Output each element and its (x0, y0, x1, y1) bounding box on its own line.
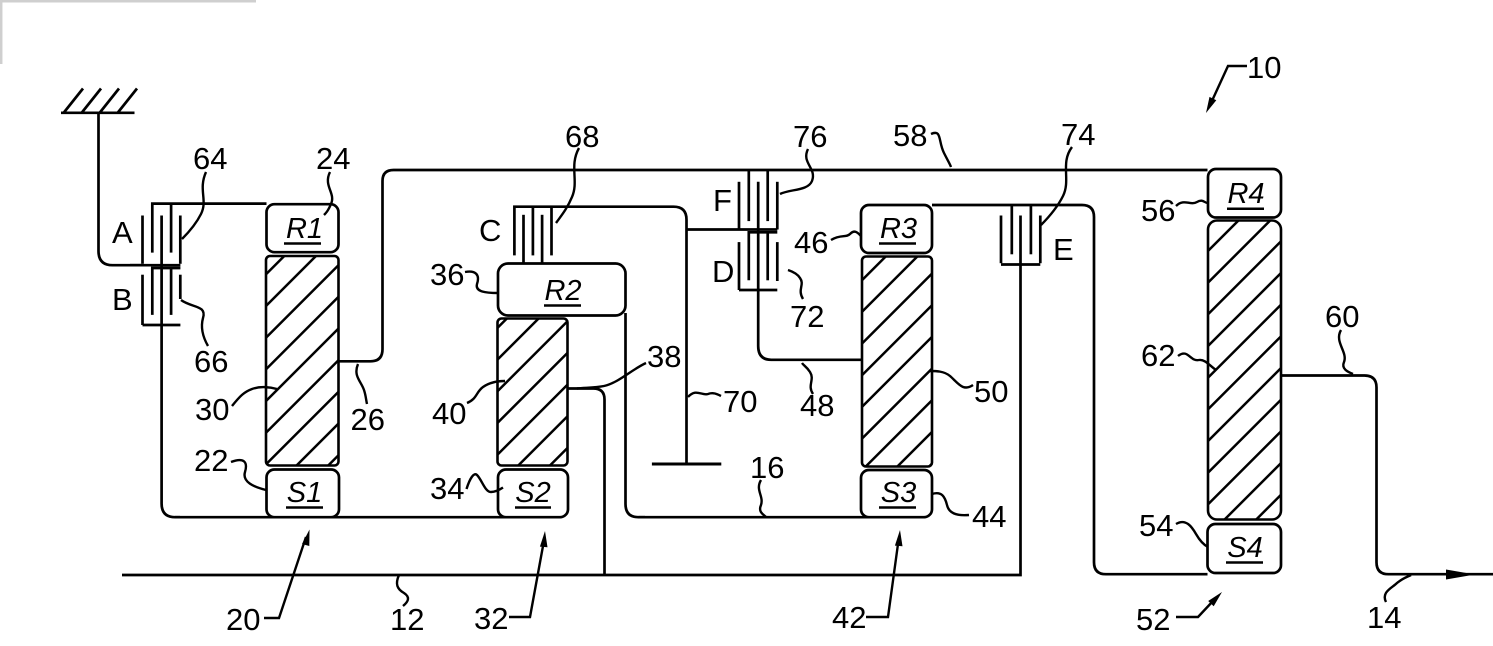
svg-text:44: 44 (972, 499, 1006, 534)
label 42 with arrow (832, 530, 903, 635)
label 56 leader (1141, 193, 1207, 228)
svg-text:46: 46 (794, 225, 828, 260)
svg-text:48: 48 (800, 388, 834, 423)
svg-text:52: 52 (1136, 602, 1170, 637)
label 24 leader (316, 141, 350, 215)
svg-text:R1: R1 (286, 213, 323, 245)
top interconnect line 58 (383, 170, 1208, 181)
wire 38: R2 body to input shaft (568, 389, 605, 576)
svg-text:S2: S2 (515, 477, 550, 509)
sun gear S3 box (861, 470, 932, 517)
label 38 leader (577, 339, 681, 389)
label 62 leader (1141, 338, 1216, 373)
svg-text:56: 56 (1141, 193, 1175, 228)
label 20 with arrow (226, 530, 310, 638)
wire 74: R3 ring / E to S4 (932, 205, 1208, 574)
page border artifact top-left (0, 0, 256, 64)
wire 60: R4 body to output (1281, 376, 1493, 575)
wire 48: F/D stem down to R3 body (758, 182, 862, 360)
label 64 leader (182, 141, 227, 239)
label 34 leader (430, 471, 503, 506)
sun line S1-S2 (175, 516, 561, 519)
clutch E (1001, 205, 1040, 265)
svg-text:58: 58 (893, 118, 927, 153)
label 66 leader (181, 300, 228, 379)
clutch A (130, 204, 267, 266)
label 74 leader (1041, 117, 1095, 225)
ring gear R1 box (267, 204, 339, 252)
clutch B (143, 268, 181, 325)
svg-text:40: 40 (432, 396, 466, 431)
output arrowhead 14 (1446, 570, 1475, 580)
wire 26: R1 body to top line (339, 181, 383, 361)
svg-text:R2: R2 (544, 275, 581, 307)
svg-text:34: 34 (430, 471, 464, 506)
svg-text:10: 10 (1247, 50, 1281, 85)
label 68 leader (556, 119, 599, 223)
svg-text:20: 20 (226, 602, 260, 637)
label 76 leader (780, 119, 827, 194)
svg-text:B: B (112, 282, 133, 317)
sun gear S2 box (498, 470, 568, 518)
svg-text:R4: R4 (1227, 178, 1264, 210)
svg-text:12: 12 (390, 602, 424, 637)
svg-text:C: C (479, 213, 501, 248)
wire B cup stem down to sun line (162, 216, 180, 518)
label 30 leader (195, 387, 277, 427)
label 36 leader (430, 257, 498, 293)
planetary gearset 3 hatched body (50) (862, 257, 932, 467)
label 14 leader (1367, 575, 1411, 635)
svg-text:66: 66 (194, 344, 228, 379)
ground bar 70 (652, 463, 721, 466)
label 58 leader (893, 118, 951, 167)
label 10 with arrow (1206, 50, 1281, 113)
svg-text:62: 62 (1141, 338, 1175, 373)
svg-text:A: A (112, 215, 133, 250)
label 16 leader (750, 450, 784, 517)
svg-text:38: 38 (647, 339, 681, 374)
label 54 leader (1139, 508, 1208, 547)
wire C cup to grounded node 70 (660, 207, 687, 464)
svg-text:72: 72 (790, 299, 824, 334)
clutch F (739, 170, 777, 230)
svg-text:22: 22 (194, 443, 228, 478)
sun gear S1 box (267, 470, 340, 518)
label 46 leader (794, 225, 861, 260)
svg-text:S1: S1 (287, 477, 322, 509)
ground symbol (fixed case, top left) (61, 89, 137, 114)
input shaft 12 and clutch E stem (122, 216, 1021, 576)
ring gear R2 box (498, 264, 626, 316)
svg-text:50: 50 (974, 374, 1008, 409)
svg-text:70: 70 (723, 384, 757, 419)
svg-text:74: 74 (1061, 117, 1095, 152)
label 72 leader (788, 270, 824, 334)
svg-text:68: 68 (565, 119, 599, 154)
svg-text:76: 76 (793, 119, 827, 154)
svg-text:F: F (713, 183, 732, 218)
clutch D (739, 232, 777, 290)
svg-text:42: 42 (832, 600, 866, 635)
label 40 leader (432, 381, 505, 431)
svg-text:26: 26 (351, 402, 385, 437)
label 60 leader (1325, 299, 1359, 374)
svg-text:14: 14 (1367, 600, 1401, 635)
svg-text:R3: R3 (880, 213, 917, 245)
ring gear R3 box (861, 205, 932, 253)
wire R2 riser down to sun line (626, 313, 646, 517)
label 12 leader (390, 575, 424, 637)
svg-text:16: 16 (750, 450, 784, 485)
wire ground to clutch A cup (99, 113, 143, 265)
label 52 with arrow (1136, 592, 1222, 637)
wire node 70 to clutch F cup (687, 228, 778, 231)
label 50 leader (930, 371, 1008, 409)
svg-text:54: 54 (1139, 508, 1173, 543)
clutch C (514, 207, 660, 266)
svg-text:32: 32 (474, 601, 508, 636)
svg-text:60: 60 (1325, 299, 1359, 334)
label 22 leader (194, 443, 266, 490)
sun line to S3 (16) (639, 516, 926, 519)
svg-text:S3: S3 (881, 477, 916, 509)
svg-text:36: 36 (430, 257, 464, 292)
svg-text:64: 64 (193, 141, 227, 176)
label 44 leader (932, 493, 1006, 534)
ring gear R4 box (1208, 169, 1281, 218)
svg-text:24: 24 (316, 141, 350, 176)
planetary gearset 1 hatched body (30) (266, 256, 339, 466)
label 32 with arrow (474, 531, 548, 636)
planetary gearset 4 hatched body (62) (1208, 221, 1281, 520)
label 26 leader (351, 364, 385, 437)
svg-text:D: D (712, 254, 734, 289)
svg-text:30: 30 (195, 392, 229, 427)
label 70 leader (688, 384, 757, 419)
label 48 leader (800, 363, 834, 423)
svg-text:E: E (1053, 232, 1074, 267)
svg-text:S4: S4 (1227, 532, 1262, 564)
sun gear S4 box (1208, 524, 1282, 573)
planetary gearset 2 hatched body (40) (498, 319, 568, 466)
